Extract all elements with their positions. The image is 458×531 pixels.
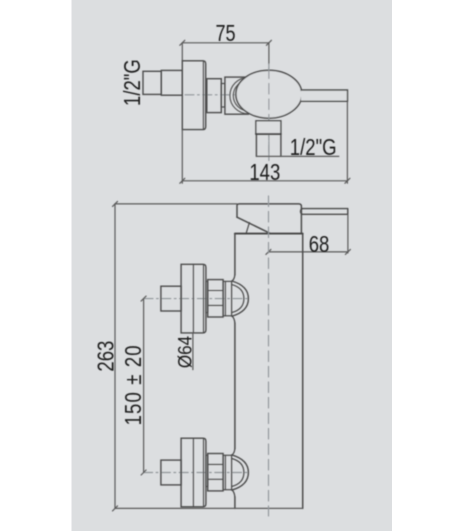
- supply stub: [161, 286, 181, 311]
- vertical axis centerline (side view): [268, 196, 270, 516]
- plate front rim line: [202, 61, 204, 130]
- flange edge rim line: [203, 265, 205, 333]
- ring inner line: [224, 281, 226, 315]
- tube flare top: [232, 275, 235, 281]
- svg-text:263: 263: [94, 341, 119, 372]
- svg-text:75: 75: [215, 21, 235, 47]
- cartridge housing B: [225, 77, 249, 114]
- socket inner arc: [232, 285, 244, 313]
- outlet nut (plan): [256, 121, 281, 134]
- extension line left (wall face): [181, 43, 183, 61]
- gray drawing panel: [72, 0, 393, 531]
- head rear cut edge: [246, 223, 249, 234]
- tick top of 150: [141, 296, 146, 301]
- tick bottom of 263: [113, 506, 118, 511]
- dimension 263 line: [114, 204, 116, 509]
- horizontal centerline (top view): [185, 94, 235, 96]
- socket outer arc: [232, 281, 249, 316]
- dimension 75 line: [182, 42, 269, 44]
- vertical axis centerline (top view): [268, 64, 270, 161]
- connector neck: [221, 84, 225, 108]
- svg-text:143: 143: [249, 160, 280, 185]
- dimension 68 line: [268, 251, 348, 253]
- top inlet centerline: [144, 298, 248, 300]
- mixer body ellipse (plan): [236, 70, 302, 118]
- dimension 150 line: [143, 299, 145, 473]
- top wall union assembly: [161, 264, 249, 333]
- handle lever (side): [301, 209, 348, 215]
- svg-text:1/2"G: 1/2"G: [120, 59, 145, 106]
- svg-text:150 ± 20: 150 ± 20: [121, 345, 146, 425]
- inlet union rect 2: [161, 70, 182, 95]
- tick right of 143: [345, 178, 350, 183]
- tick left of 68: [266, 249, 271, 254]
- extension line left for 143: [181, 130, 183, 184]
- svg-text:Ø64: Ø64: [174, 336, 195, 368]
- inlet union rect 1: [143, 71, 161, 94]
- body column left edge segments: [234, 234, 236, 509]
- tick bottom of 150: [141, 470, 146, 475]
- tick top of 263: [113, 201, 118, 206]
- body column right edge: [302, 234, 304, 509]
- connector block A: [207, 79, 222, 113]
- axis centerline through ellipse: [268, 68, 270, 161]
- tick left of 143: [180, 178, 185, 183]
- tick right of 75: [266, 40, 271, 45]
- ring: [223, 281, 232, 315]
- bottom inlet centerline: [144, 472, 248, 474]
- nut facet lines: [208, 291, 223, 306]
- outlet junction line: [256, 133, 281, 135]
- body column top edge: [235, 233, 303, 235]
- hex nut: [208, 280, 223, 317]
- tick left of 75: [180, 40, 185, 45]
- svg-text:68: 68: [309, 232, 330, 257]
- outlet bottom edge + label underline: [256, 155, 338, 157]
- washer: [206, 281, 208, 312]
- wall flange: [181, 264, 206, 333]
- bottom wall union assembly: [161, 438, 249, 507]
- handle lever (plan): [301, 90, 348, 101]
- wall escutcheon plate (edge view): [182, 61, 205, 130]
- extension line for 68: [347, 214, 349, 253]
- mixer head outline: [237, 204, 301, 234]
- extension 263 top: [115, 203, 237, 205]
- extension line right for 143: [346, 102, 348, 183]
- head diagonal underside: [237, 217, 269, 233]
- ball joint arcs (clipped): [230, 78, 266, 114]
- outlet pipe (plan): [256, 134, 281, 156]
- flange rim line: [192, 264, 194, 333]
- tube flare bottom: [232, 316, 235, 323]
- dimension 143 line: [182, 180, 347, 182]
- phi64 leader underline: [192, 333, 194, 370]
- svg-text:1/2"G: 1/2"G: [290, 135, 337, 160]
- tick right of 68: [345, 249, 350, 254]
- extension line right (axis): [268, 43, 270, 64]
- bottom edge + 263 extension: [115, 507, 303, 509]
